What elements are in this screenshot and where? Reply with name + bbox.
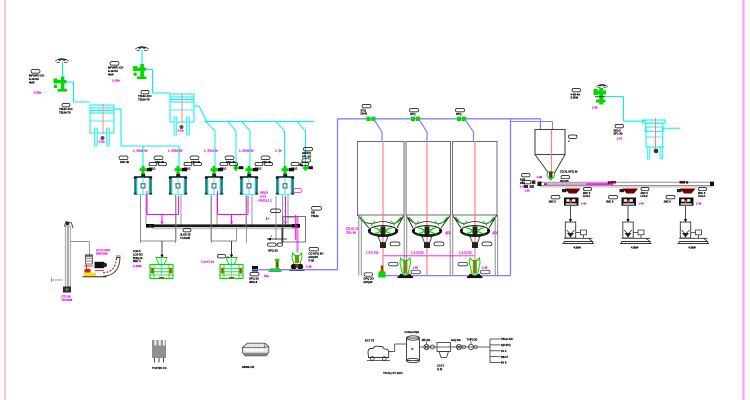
diverter valve D3 (457, 117, 466, 121)
drop lines below machine M1 (141, 195, 147, 243)
label mill station 1 left (549, 196, 561, 204)
label collect line inlet (364, 273, 374, 284)
label tag machine M2 (154, 156, 165, 164)
svg-text:1 S.C.F13: 1 S.C.F13 (366, 251, 379, 255)
svg-text:F-30: F-30 (309, 259, 315, 263)
feed drop to bagger B2 (230, 241, 233, 258)
bucket elevator BE1 legs (65, 226, 70, 291)
label mill station 2 left (606, 196, 618, 204)
svg-text:DN-B: DN-B (361, 112, 368, 116)
air tank AT1 (407, 336, 420, 363)
svg-text:GFQ 3O: GFQ 3O (268, 249, 278, 253)
machine M2 body (169, 174, 187, 195)
svg-text:FSJCLJ 2: FSJCLJ 2 (259, 199, 273, 203)
diverter valve D2 (411, 117, 420, 121)
svg-text:4/(): 4/() (299, 163, 303, 167)
mill station 3 outlet wedge (677, 189, 696, 194)
filter JF1 legs (95, 128, 110, 146)
magenta label blower (96, 248, 111, 256)
screw conveyor SC1 (146, 224, 300, 229)
svg-text:DSC 4b: DSC 4b (262, 160, 272, 164)
svg-text:▪: ▪ (271, 235, 272, 238)
detail drag conveyor (243, 343, 269, 356)
silo T2 discharge spout (422, 237, 432, 249)
svg-text:1-40: 1-40 (639, 201, 645, 205)
pipe manifold from filter JF2 (194, 106, 314, 122)
right jet filter JF3 (643, 118, 666, 152)
label conveyor SC1 (180, 229, 191, 241)
valve fitting VF1 (424, 342, 435, 350)
top manifold pipe (blue) (338, 118, 541, 120)
svg-text:DSC 4b: DSC 4b (226, 160, 236, 164)
label mill station 3 left (664, 196, 676, 204)
right chain conveyor (538, 181, 715, 187)
pipe elevator to blower (70, 242, 89, 257)
collection box right (283, 217, 306, 243)
label diverter D3 (456, 109, 465, 117)
magenta pipe group 1 (M1-M2) (147, 191, 179, 225)
label cyclone CY1 (614, 125, 624, 136)
label tag silo T1 discharge (390, 242, 400, 246)
air compressor AC1 (367, 346, 390, 360)
right border line (742, 0, 744, 400)
svg-text:CF 4: CF 4 (501, 350, 507, 353)
filter JF3 legs (646, 128, 681, 159)
silo T3 body (453, 142, 498, 216)
label tag machine M4 (225, 156, 236, 164)
svg-text:5.5kW: 5.5kW (571, 96, 579, 100)
air branch bracket (490, 339, 501, 363)
svg-text:TY(F) DG: TY(F) DG (467, 339, 478, 342)
svg-text:GLQ DG: GLQ DG (451, 339, 461, 342)
pipe F1 outlet (66, 82, 90, 102)
svg-text:GFQ 3O: GFQ 3O (249, 277, 259, 281)
label fan F3 (571, 89, 581, 100)
pipe F2 outlet (146, 70, 171, 94)
label filter JF1 (59, 104, 73, 115)
machine M5 body (276, 174, 294, 195)
svg-text:4.5kW: 4.5kW (574, 246, 582, 250)
silo T1 discharge spout (378, 237, 388, 249)
svg-text:1-36: 1-36 (413, 266, 419, 270)
silo feed drop 2 (blue) (419, 120, 427, 143)
magenta pipe group 2 (M3-M4) (218, 191, 249, 225)
rotary airlock RA1 (green crown) (292, 253, 302, 265)
label tag machine M1 (119, 156, 130, 164)
label tag machine M5 (261, 156, 272, 164)
label rotary airlock RA1 (309, 248, 324, 263)
svg-text:P: P (412, 347, 414, 351)
svg-text:STQ: STQ (410, 112, 416, 116)
svg-text:1-3k: 1-3k (525, 189, 531, 193)
drop pipe station 3 (684, 206, 687, 222)
magenta tag right of machine M5 (294, 189, 303, 193)
dryer unit DR1 (437, 343, 451, 358)
svg-text:SSR-100: SSR-100 (96, 251, 108, 255)
svg-text:TBLM: TBLM (311, 214, 319, 218)
silo T1 vibro discharger (368, 226, 398, 237)
svg-text:4.5kW: 4.5kW (631, 246, 639, 250)
bagger B2 funnel (226, 258, 237, 265)
label tag far right (311, 207, 322, 219)
svg-text:CD GFQ 3O: CD GFQ 3O (309, 252, 324, 256)
svg-text:HZFPQ: HZFPQ (302, 151, 311, 155)
label tag fan F1 (29, 70, 44, 85)
svg-text:DBJ 5: DBJ 5 (501, 356, 508, 359)
bagger B2 body (packing scale) (220, 265, 243, 279)
svg-text:▪▪: ▪▪ (227, 256, 229, 259)
svg-text:5Okg 2t: 5Okg 2t (133, 256, 143, 260)
roller mill 1 motor (576, 230, 587, 238)
svg-text:BY 6: BY 6 (501, 362, 507, 365)
label rotary feeder RF2 (458, 262, 490, 274)
diverter valve D1 (367, 117, 376, 121)
svg-text:TBLM JCC: TBLM JCC (501, 338, 513, 341)
pipe fan F3 to cyclone (606, 97, 647, 122)
svg-text:YS KQ XT 1OO: YS KQ XT 1OO (383, 371, 403, 375)
svg-text:JB10-8: JB10-8 (249, 280, 258, 284)
elevator inlet stub (52, 278, 63, 283)
blower base line (83, 276, 107, 278)
svg-text:TLSS25: TLSS25 (180, 236, 191, 240)
filter JF2 (170, 93, 194, 123)
label tag silo T2 discharge (434, 242, 444, 246)
machine M1 body (134, 174, 152, 195)
svg-text:1-36: 1-36 (306, 265, 312, 269)
fan F1 (green aspiration fan) (54, 77, 68, 92)
bagging collection line (blue) (252, 119, 338, 270)
label tag pair machine M4 (255, 163, 273, 171)
svg-text:4.5kW: 4.5kW (689, 246, 697, 250)
mill station 1 outlet wedge (562, 189, 581, 194)
mill station 2 outlet wedge (620, 189, 639, 194)
svg-text:1-2b: 1-2b (178, 129, 184, 133)
svg-text:STQ: STQ (456, 112, 462, 116)
weigh bin WB1 (535, 130, 565, 174)
blower air filter (85, 254, 92, 264)
svg-text:4kW: 4kW (108, 73, 114, 77)
svg-text:1-40: 1-40 (581, 201, 587, 205)
valve fitting VF3 (468, 342, 477, 350)
roller mill 1 (565, 222, 575, 238)
blower yellow base block (84, 273, 96, 276)
machine M4 body (240, 174, 258, 195)
feed valve machine M4 (246, 166, 259, 173)
riser drop to machine M3 (206, 122, 215, 166)
svg-text:1-36: 1-36 (482, 266, 488, 270)
fan F3 (right) (596, 84, 608, 87)
silo T3 vibro discharger (460, 226, 490, 237)
label mill station 1 upper (583, 188, 592, 199)
svg-text:1-37: 1-37 (617, 137, 623, 141)
svg-text:TCXT2O CX: TCXT2O CX (152, 366, 167, 370)
magenta label silo T1 left (346, 227, 360, 235)
rotary feeder RF2 on collect line (467, 258, 483, 278)
svg-text:DSC 4b: DSC 4b (155, 160, 165, 164)
magenta dim line below silos (366, 251, 475, 256)
svg-text:1-29a: 1-29a (34, 91, 42, 95)
pipe filter JF1 to machines M1 M2 (114, 109, 179, 166)
label tag bagger B2 (218, 255, 229, 259)
conveyor inlet boxes left (523, 180, 536, 192)
silo T3 flow line (red) (474, 141, 476, 248)
label mill station 2 upper (641, 188, 650, 199)
feed valve machine M1 (140, 166, 153, 173)
svg-text:LCS-F: LCS-F (583, 195, 591, 198)
svg-text:▪: ▪ (371, 278, 372, 281)
air line main (420, 346, 491, 348)
silo T2 body (406, 142, 451, 216)
valve fitting VF2 (456, 344, 465, 349)
svg-text:1. 3Oa1 3a: 1. 3Oa1 3a (133, 149, 148, 153)
silo T1 body (358, 142, 405, 216)
svg-text:(L 3): (L 3) (437, 367, 442, 371)
green stand S1 (269, 259, 282, 272)
silo T1 flow line (red) (382, 141, 384, 248)
svg-text:TDTG36: TDTG36 (62, 298, 73, 302)
silo return riser (blue) (510, 119, 512, 276)
magenta pipe group 3 (M5) (284, 196, 298, 253)
label tag machine M3 (190, 156, 201, 164)
feed drop to bagger B1 (160, 241, 163, 258)
rotary feeder RF1 on collect line (398, 258, 414, 278)
end cap bagging line (252, 266, 258, 272)
riser drop aux A2 (297, 122, 313, 171)
svg-text:1-29b: 1-29b (112, 79, 120, 83)
silo support columns (359, 215, 498, 276)
label tag fan F2 (108, 62, 123, 77)
fan F2 (133, 64, 147, 79)
svg-text:1. 3Oc1 3c: 1. 3Oc1 3c (204, 149, 219, 153)
drop lines below machine M5 (283, 195, 289, 243)
bucket elevator BE1 boot (63, 287, 71, 293)
blower red fittings (84, 264, 104, 273)
svg-text:GFQ 3O: GFQ 3O (364, 277, 374, 281)
label diverter D1 (361, 105, 372, 116)
svg-text:JZF DG: JZF DG (422, 339, 431, 342)
roller mill 3 motor (691, 230, 702, 238)
svg-text:LCS-5O: LCS-5O (133, 252, 143, 256)
svg-text:TBLM-78: TBLM-78 (138, 98, 150, 102)
riser drop to machine M4 (242, 122, 250, 166)
label tag pair machine M1 (149, 163, 167, 171)
feed valve machine M3 (211, 166, 224, 173)
feed valve machine M5 (282, 166, 295, 173)
label rotary feeder RF1 (389, 262, 421, 274)
silo T3 discharge spout (470, 237, 480, 249)
inlet valve on collect line (green sq) (379, 266, 386, 278)
label diverter D2 (410, 109, 419, 117)
bucket elevator BE1 head (65, 222, 74, 229)
silo feed drop 3 (blue) (465, 120, 474, 143)
svg-text:▪▪: ▪▪ (568, 140, 570, 143)
svg-text:1 pc+1 pc: 1 pc+1 pc (201, 260, 215, 264)
svg-text:QD STQ: QD STQ (501, 344, 511, 347)
left border line (4, 0, 6, 400)
drop lines below machine M3 (212, 195, 218, 243)
svg-text:ZXL-10: ZXL-10 (346, 231, 356, 235)
svg-text:LCS-5: LCS-5 (133, 249, 141, 253)
svg-text:4-68-4A: 4-68-4A (571, 92, 581, 96)
drop lines below machine M4 (247, 195, 253, 243)
machine M3 body (205, 174, 223, 195)
svg-text:TBLM-78: TBLM-78 (59, 111, 71, 115)
fan F3 body (594, 88, 607, 105)
roller mill 3 base (678, 238, 710, 243)
label tag pair machine M5 (291, 163, 309, 171)
svg-text:1Ba: 1Ba (264, 274, 269, 278)
svg-text:DSC 4b: DSC 4b (120, 160, 130, 164)
svg-text:LCS-F: LCS-F (641, 195, 649, 198)
svg-text:1-39: 1-39 (537, 175, 543, 179)
svg-text:1 S.C.F13: 1 S.C.F13 (411, 251, 424, 255)
svg-text:1. 3e: 1. 3e (275, 149, 282, 153)
air branch labels (501, 338, 513, 365)
silo T3 hopper cone (453, 215, 498, 228)
label at line start (249, 273, 269, 285)
roller mill 1 base (563, 238, 595, 243)
blower motor (black) (95, 262, 108, 268)
roller mill 2 base (620, 238, 652, 243)
svg-text:JMC 8: JMC 8 (606, 201, 614, 204)
roller mill 2 (623, 222, 633, 238)
bagger B1 body (packing scale) (150, 265, 173, 279)
drop lines below machine M2 (176, 195, 182, 243)
bin feed elbow (blue) (511, 119, 553, 130)
label bin discharge (560, 170, 578, 183)
magenta label elevator BE1 (62, 295, 73, 303)
label tag pair machine M3 (220, 163, 238, 171)
svg-text:1-38: 1-38 (592, 106, 598, 110)
label tags stand S1 (268, 243, 283, 253)
rotary airlock RA1 base (290, 264, 305, 271)
svg-text:1-2a: 1-2a (99, 140, 105, 144)
svg-text:XFL-30: XFL-30 (614, 132, 623, 136)
label mill station 3 upper (698, 188, 707, 199)
filter JF2 legs (174, 117, 189, 135)
weigher mill station 1 (564, 198, 579, 206)
wire vent2 to fan F2 (141, 50, 143, 79)
svg-text:1 S.C.F13: 1 S.C.F13 (459, 251, 472, 255)
svg-text:JMC 8: JMC 8 (664, 201, 672, 204)
vent cap V2 (135, 47, 149, 51)
label tag pair machine M2 (184, 163, 202, 171)
label filter JF2 (138, 91, 152, 102)
svg-text:1-40: 1-40 (696, 201, 702, 205)
wire vent1 to fan F1 (62, 62, 64, 92)
silo feed drop 1 (blue) (374, 120, 382, 143)
svg-text:DSC 4b: DSC 4b (191, 160, 201, 164)
svg-text:BZD 4: BZD 4 (133, 259, 141, 263)
label bagger B1 (133, 249, 143, 263)
svg-text:1-33ab: 1-33ab (133, 264, 142, 268)
svg-text:KYJ 75: KYJ 75 (365, 339, 374, 343)
drop pipe station 1 (569, 206, 572, 222)
svg-text:1. 3Ob1 3b: 1. 3Ob1 3b (168, 149, 183, 153)
svg-text:XFL-3O: XFL-3O (302, 154, 311, 158)
svg-text:O.6m3 ZQG: O.6m3 ZQG (405, 330, 420, 334)
label right of silos (520, 174, 530, 189)
svg-text:1. 3Od1 3d: 1. 3Od1 3d (239, 149, 254, 153)
silo T1 hopper cone (358, 215, 405, 228)
drop pipe station 2 (626, 206, 629, 222)
silo red drop lines to collect line (383, 248, 475, 276)
silo T2 hopper cone (406, 215, 451, 228)
vent cap V1 (55, 59, 69, 63)
riser drop to machine M5 (276, 122, 285, 166)
arrow line right (267, 228, 287, 243)
pipe compressor to tank (389, 344, 407, 352)
label tag silo T3 discharge (482, 242, 492, 246)
weigher mill station 3 (679, 198, 694, 206)
label dryer DR1 (437, 364, 444, 372)
feed valve machine M2 (175, 166, 188, 173)
bin discharge valve (green) (547, 171, 555, 180)
silo T2 vibro discharger (412, 226, 442, 237)
label tags right of conveyor (266, 209, 281, 220)
svg-text:GBSSJ 25: GBSSJ 25 (242, 365, 255, 369)
svg-text:JMC 8: JMC 8 (549, 201, 557, 204)
weigher mill station 2 (622, 198, 637, 206)
riser drop aux A1 (228, 122, 243, 171)
roller mill 3 (680, 222, 690, 238)
svg-text:LGJ 2: LGJ 2 (437, 364, 444, 368)
label cluster right of riser A2 (299, 148, 313, 168)
silo collect line (blue) (378, 275, 511, 277)
roller mill 2 motor (633, 230, 644, 238)
magenta note center (259, 191, 273, 203)
silo T2 flow line (red) (426, 141, 428, 248)
svg-text:4kW: 4kW (29, 81, 35, 85)
filter JF1 (jet filter) (90, 104, 114, 134)
svg-text:GFQ3O: GFQ3O (309, 255, 318, 259)
svg-text:SKLG: SKLG (614, 128, 621, 132)
svg-text:LCS-F: LCS-F (698, 195, 706, 198)
bagger B1 funnel (156, 258, 167, 265)
svg-text:1 ▪: 1 ▪ (266, 216, 269, 220)
detail magnetic separator (152, 340, 166, 363)
label bin WB1 (568, 135, 577, 143)
discharge elbow (curved pipe) (103, 256, 121, 276)
structure lines below conveyor (141, 195, 277, 241)
svg-text:CD XL GFQ 3b: CD XL GFQ 3b (560, 170, 578, 174)
